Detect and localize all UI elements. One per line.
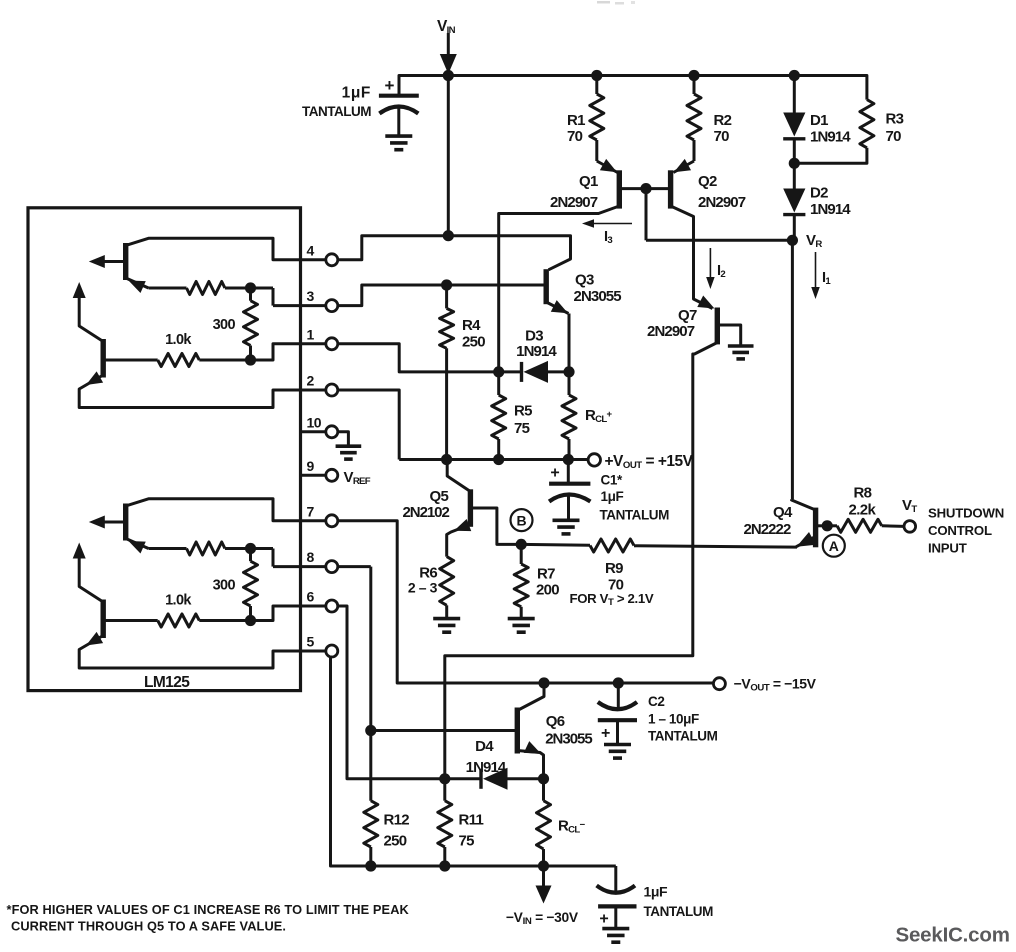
svg-text:D1: D1 [810,112,828,129]
svg-text:+VOUT = +15V: +VOUT = +15V [605,453,694,471]
svg-text:+: + [385,76,395,95]
svg-text:2 – 3: 2 – 3 [408,580,438,596]
svg-text:2.2k: 2.2k [849,502,877,519]
svg-text:1N914: 1N914 [516,343,557,360]
svg-text:C1*: C1* [601,473,623,488]
svg-text:−VIN = −30V: −VIN = −30V [506,910,579,927]
svg-text:D3: D3 [525,328,543,345]
svg-text:LM125: LM125 [144,674,190,691]
svg-text:10: 10 [307,414,322,430]
svg-text:R4: R4 [462,317,481,334]
svg-text:TANTALUM: TANTALUM [644,904,714,919]
svg-text:Q2: Q2 [698,173,717,190]
svg-text:5: 5 [307,634,315,650]
svg-text:3: 3 [307,288,315,304]
svg-text:Q3: Q3 [575,272,594,289]
svg-text:2N2907: 2N2907 [550,194,598,211]
svg-text:2N2222: 2N2222 [744,521,791,538]
svg-text:2: 2 [307,373,315,389]
svg-text:2N3055: 2N3055 [574,288,622,305]
svg-text:8: 8 [307,549,315,565]
svg-text:VIN: VIN [437,18,456,36]
svg-text:+: + [550,465,559,482]
svg-text:6: 6 [307,589,315,605]
svg-text:*FOR HIGHER VALUES OF C1 INCRE: *FOR HIGHER VALUES OF C1 INCREASE R6 TO … [7,902,410,917]
svg-text:C2: C2 [648,694,664,709]
svg-text:VREF: VREF [344,469,371,487]
svg-text:−VOUT = −15V: −VOUT = −15V [734,676,817,694]
svg-text:R1: R1 [567,112,585,129]
svg-text:1 – 10μF: 1 – 10μF [648,712,699,727]
svg-text:70: 70 [567,128,583,145]
svg-text:D4: D4 [475,738,494,755]
svg-text:1μF: 1μF [601,489,624,504]
svg-text:+: + [599,911,608,928]
svg-text:1N914: 1N914 [466,759,507,776]
svg-text:RCL+: RCL+ [585,407,613,425]
svg-text:TANTALUM: TANTALUM [648,729,718,744]
svg-text:200: 200 [536,582,559,599]
svg-text:R3: R3 [886,111,904,128]
svg-text:75: 75 [459,833,475,850]
svg-text:250: 250 [462,334,485,351]
svg-text:9: 9 [307,458,315,474]
svg-text:Q6: Q6 [546,713,565,730]
svg-text:1: 1 [307,326,315,342]
svg-text:I3: I3 [604,229,612,246]
svg-text:CONTROL: CONTROL [928,523,992,538]
svg-text:R8: R8 [854,485,872,502]
svg-text:1N914: 1N914 [810,201,851,218]
svg-text:Q1: Q1 [579,173,598,190]
svg-text:R11: R11 [459,812,484,829]
svg-text:+: + [601,725,610,742]
svg-text:250: 250 [384,833,407,850]
svg-text:1N914: 1N914 [810,128,851,145]
svg-text:RCL−: RCL− [558,818,586,836]
svg-text:7: 7 [307,503,315,519]
svg-text:A: A [829,538,839,554]
svg-text:70: 70 [886,128,902,145]
svg-text:1μF: 1μF [342,85,371,102]
svg-text:2N3055: 2N3055 [545,731,592,748]
svg-text:1μF: 1μF [644,884,669,900]
svg-text:Q5: Q5 [430,488,449,505]
svg-text:R7: R7 [537,566,555,583]
svg-text:VT: VT [902,497,917,515]
svg-text:R2: R2 [714,112,732,129]
svg-text:300: 300 [213,578,236,594]
svg-text:1.0k: 1.0k [165,332,192,348]
svg-text:CURRENT THROUGH Q5 TO A SAFE V: CURRENT THROUGH Q5 TO A SAFE VALUE. [11,919,286,934]
svg-text:75: 75 [514,420,530,437]
svg-text:2N2102: 2N2102 [403,504,450,521]
svg-text:SeekIC.com: SeekIC.com [896,924,1010,947]
svg-text:R9: R9 [605,560,623,577]
svg-text:Q7: Q7 [678,307,697,324]
svg-text:300: 300 [213,317,236,333]
svg-text:I1: I1 [822,270,831,287]
svg-text:R5: R5 [514,403,532,420]
svg-text:TANTALUM: TANTALUM [600,508,670,523]
svg-text:Q4: Q4 [773,504,793,521]
svg-text:SHUTDOWN: SHUTDOWN [928,506,1004,521]
svg-text:70: 70 [714,128,730,145]
svg-text:FOR VT > 2.1V: FOR VT > 2.1V [570,591,654,608]
svg-text:1.0k: 1.0k [165,593,192,609]
svg-text:2N2907: 2N2907 [698,194,746,211]
svg-text:TANTALUM: TANTALUM [302,104,371,119]
svg-text:VR: VR [806,232,822,250]
svg-text:B: B [516,513,526,529]
svg-text:4: 4 [307,242,315,258]
svg-text:INPUT: INPUT [928,541,967,556]
svg-text:D2: D2 [810,185,828,202]
svg-text:2N2907: 2N2907 [647,323,695,340]
svg-text:I2: I2 [717,263,725,280]
svg-text:R12: R12 [384,812,410,829]
